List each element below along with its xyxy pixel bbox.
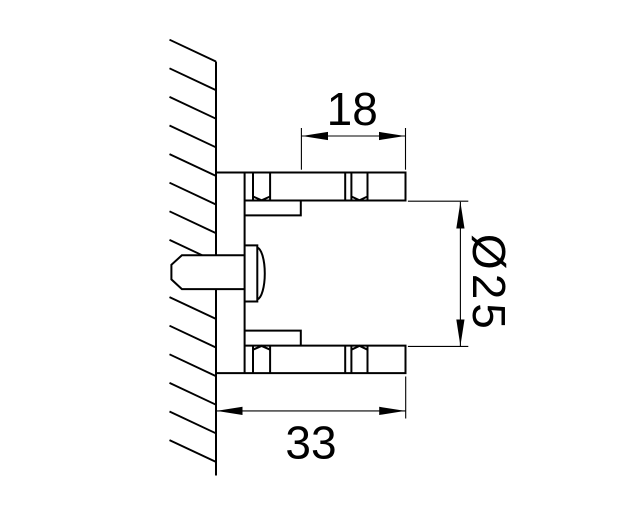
dimension D25 bbox=[408, 201, 468, 346]
hatch line 12 bbox=[170, 383, 216, 405]
hatch line 7 bbox=[170, 211, 216, 233]
top arm hole 2 far line bbox=[367, 173, 369, 201]
18 dimension line bbox=[301, 135, 405, 137]
33 right extension line bbox=[405, 377, 407, 419]
bottom arm hole 2 far line bbox=[367, 346, 369, 374]
clamp profile outlines bbox=[216, 173, 406, 374]
bottom glass seat step bbox=[245, 331, 301, 346]
hatch line 3 bbox=[170, 97, 216, 119]
hatch line 9 bbox=[170, 297, 216, 319]
bolt shaft bbox=[171, 255, 245, 289]
top glass seat step bbox=[245, 201, 301, 216]
hatch line 14 bbox=[170, 440, 216, 462]
D25 bottom extension line bbox=[408, 345, 468, 347]
wall hatching bbox=[170, 40, 216, 462]
33 right arrowhead bbox=[379, 407, 405, 415]
bolt head bbox=[245, 245, 265, 301]
svg-text:Ø25: Ø25 bbox=[463, 234, 515, 333]
top arm hole 1 drill point V bbox=[253, 197, 270, 201]
top arm hole 2 slot line bbox=[344, 173, 346, 201]
wall face line (broken where bolt shaft passes) bbox=[215, 62, 217, 476]
hatch line 4 bbox=[170, 126, 216, 148]
hatch line 10 bbox=[170, 326, 216, 348]
top arm hole 2 near line bbox=[350, 173, 352, 201]
18 left extension line bbox=[300, 128, 302, 170]
33 dimension line bbox=[216, 410, 406, 412]
D25 bottom arrowhead bbox=[456, 320, 464, 346]
svg-text:18: 18 bbox=[327, 83, 378, 135]
bottom arm hole 1 slot line bbox=[252, 346, 254, 374]
18 right arrowhead bbox=[379, 132, 405, 140]
top arm hole 1 far line bbox=[269, 173, 271, 201]
18 right extension line bbox=[405, 128, 407, 170]
svg-text:33: 33 bbox=[285, 417, 336, 469]
dimension 33 bbox=[216, 377, 406, 419]
top arm outline bbox=[216, 173, 406, 201]
hatch line 1 bbox=[170, 40, 216, 62]
D25 top extension line bbox=[408, 200, 468, 202]
hatch line 13 bbox=[170, 412, 216, 434]
dimension 18 bbox=[301, 128, 405, 170]
hatch line 5 bbox=[170, 154, 216, 176]
bottom arm outline bbox=[216, 346, 406, 374]
bottom arm hole 2 near line bbox=[350, 346, 352, 374]
top arm hole 1 slot line bbox=[252, 173, 254, 201]
hatch line 11 bbox=[170, 354, 216, 376]
D25 dimension line bbox=[459, 202, 461, 346]
bolt head dome arc bbox=[257, 248, 264, 300]
top arm hole 2 drill point V bbox=[351, 197, 367, 201]
hatch line 8 (clipped by bolt shaft) bbox=[170, 240, 203, 255]
bottom arm hole 1 drill point V bbox=[253, 346, 270, 350]
D25 top arrowhead bbox=[456, 202, 464, 229]
18 left arrowhead bbox=[302, 132, 328, 140]
bottom arm hole 2 drill point V bbox=[351, 346, 367, 350]
body face vertical bbox=[244, 173, 246, 374]
hatch line 2 bbox=[170, 68, 216, 90]
33 left arrowhead bbox=[217, 407, 243, 415]
hatch line 6 bbox=[170, 183, 216, 205]
bottom arm hole 2 slot line bbox=[344, 346, 346, 374]
bottom arm hole 1 far line bbox=[269, 346, 271, 374]
